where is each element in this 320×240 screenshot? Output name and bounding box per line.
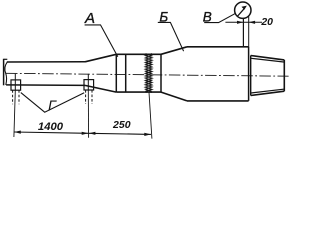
svg-text:250: 250 [112, 119, 131, 131]
cone left face [250, 56, 252, 96]
support 1 hidden left edge [12, 90, 14, 104]
dial indicator body [235, 2, 251, 18]
mid cylinder bottom outline [116, 91, 161, 93]
arrow dim250 left [89, 132, 96, 135]
mid cylinder left face [115, 54, 117, 92]
taper B bottom edge [161, 92, 187, 101]
mid cylinder ring edge [125, 54, 127, 92]
knurled ring zigzag 1 [145, 54, 152, 93]
support 2 hidden right edge [91, 90, 93, 104]
dimension line 250 [89, 133, 151, 134]
big cylinder end face [248, 47, 250, 101]
thin shaft bottom outline [6, 84, 85, 87]
svg-text:А: А [84, 10, 95, 27]
cone inner top edge [251, 58, 284, 62]
support 1 body [11, 80, 21, 90]
support 2 body [84, 80, 94, 90]
extension line support 1 [14, 90, 15, 137]
support 2 hidden left edge [85, 90, 87, 104]
big cylinder bottom outline [187, 100, 249, 102]
extension line knurl center [149, 92, 152, 138]
support 1 centerline [14, 74, 16, 91]
cone inner bottom edge [251, 89, 284, 93]
svg-text:Б: Б [159, 9, 168, 24]
arrow dim20 left [237, 21, 243, 24]
leader line label G(Г) [21, 93, 84, 113]
cone right end face [283, 60, 285, 91]
arrow dim1400 right [82, 132, 89, 135]
leader line label B(Б) [158, 22, 184, 51]
support 1 hidden right edge [18, 90, 20, 104]
big cylinder top outline [187, 46, 249, 48]
extension line of cylinder end face [248, 16, 250, 46]
svg-text:1400: 1400 [38, 121, 64, 133]
frame remnant left border [3, 59, 5, 86]
cone outer bottom edge [251, 91, 285, 95]
dimension line 1400 [14, 132, 89, 133]
frame remnant top stub [4, 58, 8, 60]
leader line label V(В) [204, 13, 236, 22]
arrow dim1400 left [14, 131, 21, 134]
dimension line 20 [225, 21, 262, 23]
taper A bottom edge [85, 85, 116, 92]
leader line label A [85, 25, 118, 57]
dial indicator needle [238, 8, 245, 16]
support 2 centerline [87, 74, 89, 90]
arrow dim250 right [144, 133, 151, 136]
mid cylinder top outline [116, 53, 161, 55]
dial indicator stem [242, 18, 244, 47]
shaft break line [5, 62, 7, 85]
cone outer top edge [251, 56, 285, 60]
knurled ring zigzag 2 [146, 54, 152, 93]
arrow dim20 right [249, 21, 255, 24]
mid cylinder right face [160, 54, 162, 92]
centerline [6, 73, 289, 76]
taper B top edge [161, 47, 187, 55]
svg-text:Г: Г [48, 99, 57, 115]
svg-text:В: В [203, 10, 212, 25]
thin shaft top outline [7, 61, 85, 63]
svg-text:20: 20 [260, 16, 273, 28]
extension line support 2 [87, 90, 89, 138]
arrow indicator needle tip [242, 6, 247, 10]
taper A top edge [85, 54, 116, 62]
